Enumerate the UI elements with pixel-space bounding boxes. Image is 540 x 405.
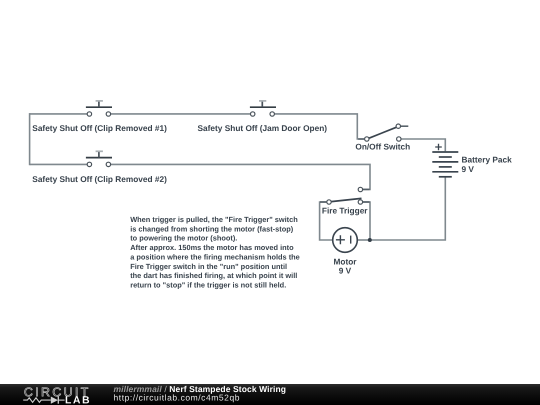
wire battery bottom to junction	[370, 177, 445, 240]
svg-text:On/Off Switch: On/Off Switch	[355, 142, 410, 152]
svg-text:return to "stop" if the trigge: return to "stop" if the trigger is not s…	[130, 280, 286, 289]
svg-text:Fire Trigger: Fire Trigger	[322, 206, 368, 216]
wire stub to fire trigger upper throw	[363, 188, 370, 190]
CircuitLab logo diode	[51, 397, 65, 404]
pushbutton SW1 (Safety Shut Off Clip Removed #1)	[86, 101, 112, 116]
svg-text:the dart has finished firing,: the dart has finished firing, at which p…	[130, 271, 297, 280]
battery plus sign	[435, 144, 442, 151]
wire on/off top throw stub	[401, 125, 409, 127]
switch SW5 Fire Trigger SPDT	[327, 187, 363, 204]
wire fire trigger bottom throw to junction	[363, 202, 370, 240]
svg-text:Safety Shut Off (Jam Door Open: Safety Shut Off (Jam Door Open)	[198, 123, 328, 133]
CircuitLab logo resistor zigzag	[23, 398, 51, 403]
pushbutton SW3 (Safety Shut Off Clip Removed #2)	[86, 151, 112, 166]
pushbutton SW2 (Safety Shut Off Jam Door Open)	[250, 101, 276, 116]
wire row1 right segment to on/off switch	[275, 114, 365, 139]
wire stub to fire trigger common	[320, 201, 326, 203]
wire row2 right segment to fire trigger top throw	[111, 164, 370, 189]
wire stub to on/off common	[358, 138, 364, 140]
wire row2 left segment	[30, 163, 87, 165]
CircuitLab logo text CIRCUIT	[25, 388, 88, 397]
wire junction to motor right terminal	[357, 239, 370, 241]
svg-text:a position where the firing me: a position where the firing mechanism ho…	[130, 252, 300, 261]
wire on/off bottom throw to battery top	[402, 139, 446, 151]
switch SW4 On/Off SPDT	[365, 124, 401, 141]
svg-text:http://circuitlab.com/c4m52qb: http://circuitlab.com/c4m52qb	[114, 392, 241, 402]
svg-text:9 V: 9 V	[462, 164, 475, 174]
battery V1	[432, 152, 458, 177]
svg-text:When trigger is pulled, the "F: When trigger is pulled, the "Fire Trigge…	[130, 215, 298, 224]
motor M1	[333, 228, 358, 253]
wire motor left to fire trigger common	[320, 202, 333, 240]
svg-text:Fire Trigger switch in the "ru: Fire Trigger switch in the "run" positio…	[130, 262, 287, 271]
wire row1 mid segment	[111, 113, 251, 115]
wire left vertical	[29, 113, 31, 165]
CircuitLab logo text LAB	[66, 396, 89, 403]
svg-text:After approx. 150ms the motor: After approx. 150ms the motor has moved …	[130, 243, 294, 252]
annotation text block	[130, 215, 300, 289]
svg-text:is changed from shorting the m: is changed from shorting the motor (fast…	[130, 224, 294, 233]
svg-text:Safety Shut Off (Clip Removed: Safety Shut Off (Clip Removed #2)	[32, 174, 167, 184]
node junction at motor output	[368, 238, 372, 242]
svg-text:to powering the motor (shoot).: to powering the motor (shoot).	[130, 234, 237, 243]
svg-text:Safety Shut Off (Clip Removed: Safety Shut Off (Clip Removed #1)	[32, 123, 167, 133]
wire stub to fire trigger lower throw	[363, 201, 370, 203]
svg-text:9 V: 9 V	[339, 265, 352, 275]
wire row1 left segment	[30, 113, 87, 115]
